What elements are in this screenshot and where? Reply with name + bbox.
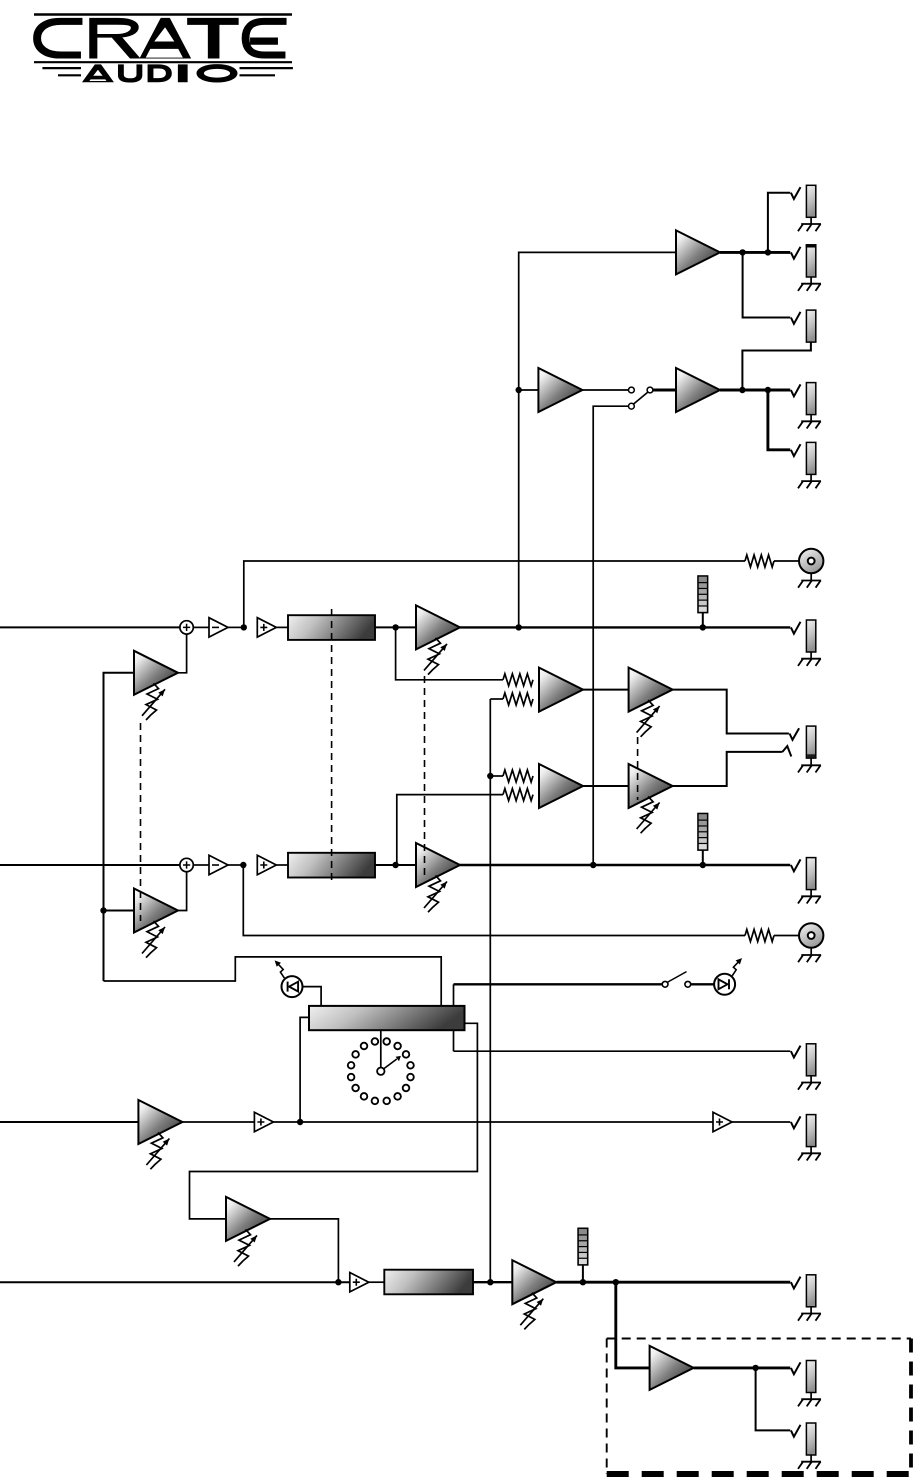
wire from node down-right to jack J3 — [743, 252, 791, 317]
node ch1 tape tap — [241, 624, 247, 630]
jack J2 (speaker out L) — [791, 247, 801, 259]
switch SW1 throw contact — [647, 387, 653, 393]
node PA meter tap — [580, 1279, 586, 1285]
variable resistor of A6 — [238, 1229, 251, 1266]
wire footswitch line — [454, 983, 663, 985]
wire buffer to node 2 — [228, 864, 243, 866]
logo left flourish lines — [42, 67, 81, 69]
wire master left terminal down — [300, 1017, 309, 1122]
ground — [801, 1461, 821, 1463]
node ch2 post fader — [392, 862, 398, 868]
summing node S1 — [180, 621, 193, 634]
wire mic line to right — [273, 1121, 713, 1123]
wire HA2 to phone tip — [673, 690, 789, 734]
node ch2 tape tap — [240, 862, 246, 868]
fader F1 (channel 1 level) — [288, 615, 375, 640]
ground — [801, 1082, 821, 1084]
EQ block — [384, 1270, 473, 1295]
ground — [801, 480, 821, 482]
rotary selector switch — [383, 1038, 390, 1045]
logo AUDIO wordmark — [83, 65, 237, 82]
wire ch2 output line — [460, 864, 790, 866]
LED meter channel 2 — [702, 850, 704, 865]
wire A2 output line — [720, 389, 790, 392]
node A2 out 1 — [739, 387, 745, 393]
wire FB2 input from bus — [104, 910, 135, 912]
dashed enclosure right edge — [909, 1339, 913, 1475]
buffer B3 (-) — [209, 855, 228, 874]
jack footswitch — [791, 1046, 801, 1058]
op-amp A7 (power amp) — [512, 1260, 556, 1304]
variable resistor of A5 — [150, 1133, 163, 1170]
ground — [801, 1398, 821, 1400]
dashed enclosure left edge — [606, 1339, 608, 1475]
footswitch arm — [667, 972, 686, 983]
wire bus top bend to resistor — [490, 698, 503, 700]
logo CRATE wordmark — [34, 18, 287, 58]
node bus join PA — [487, 1279, 493, 1285]
ground — [801, 283, 821, 285]
wire buffer to fader — [276, 626, 288, 628]
resistor R4 headphone R b — [503, 789, 533, 801]
jack channel 1 output — [791, 622, 801, 634]
wire to footswitch jack — [454, 1050, 791, 1052]
node ch1 meter tap — [700, 624, 706, 630]
LED meter PA — [582, 1265, 584, 1282]
wire down to jack J5 — [768, 390, 790, 450]
wire ch2 headphone feed — [397, 795, 503, 865]
node bus to headphone upper — [487, 773, 493, 779]
jack ext speaker 2 — [791, 1425, 801, 1437]
wire EQ to PA amp — [473, 1281, 512, 1283]
dashed gang link feedback amps — [140, 723, 142, 921]
node on bus to amp A3 — [516, 387, 522, 393]
wire buffer to EQ — [369, 1281, 385, 1283]
wire PA bus vertical — [489, 699, 491, 1282]
ground — [801, 580, 821, 582]
jack speaker main — [791, 1277, 801, 1289]
node feedback bus — [100, 907, 106, 913]
node ext out — [752, 1365, 758, 1371]
resistor ch1 tape — [745, 555, 774, 567]
wire A9 output — [694, 1366, 791, 1369]
wire HA4 to phone ring — [673, 752, 783, 786]
logo right flourish lines — [240, 67, 293, 69]
wire to extension amp — [616, 1282, 650, 1368]
resistor ch2 tape — [745, 930, 774, 942]
wire PA output line — [557, 1281, 791, 1284]
wire buffer to node — [228, 626, 244, 628]
LED D1 (power indicator) — [282, 976, 303, 997]
resistor R3 headphone R a — [503, 770, 533, 782]
wire HA1 out to HA2 — [583, 689, 629, 691]
wire A1 output line — [720, 251, 790, 254]
op-amp A2 (power amp R) — [676, 368, 720, 412]
ground — [801, 954, 821, 956]
node ch1 post fader — [392, 624, 398, 630]
op-amp A6 (reverb driver) — [226, 1197, 270, 1241]
node PA ext tap — [613, 1279, 619, 1285]
wire bus to resistor R3 — [490, 775, 503, 777]
node A1 out 2 — [765, 249, 771, 255]
summing node S2 — [180, 858, 193, 871]
wire from lower contact to channel 2 line — [593, 406, 628, 865]
buffer B4 (+) — [257, 855, 276, 874]
wire up to jack J1 — [768, 193, 790, 253]
node ch2 switch tap — [590, 862, 596, 868]
variable resistor of HA4 — [641, 797, 654, 834]
dashed enclosure top edge — [607, 1338, 911, 1340]
LED D2 (reverb indicator) — [714, 974, 735, 995]
wire FB1 input from bus — [104, 673, 135, 981]
wire ch1 tape send — [244, 561, 745, 627]
op-amp FB1 (ch1 feedback) — [134, 651, 178, 695]
switch SW1 lower contact — [629, 403, 635, 409]
variable resistor of FB2 — [146, 921, 159, 958]
resistor R2 headphone L b — [503, 693, 533, 705]
wire channel 1 input — [0, 626, 180, 628]
node A1 out 1 — [739, 249, 745, 255]
variable resistor of HA2 — [641, 700, 654, 737]
jack J3 (power amp in) — [791, 312, 801, 324]
op-amp A8 (channel 2 VCA) — [416, 843, 460, 887]
RCA jack tape out L — [799, 549, 823, 573]
wire buffer to fader 2 — [276, 864, 288, 866]
footswitch contact B — [685, 981, 691, 987]
op-amp A4 (channel 1 VCA) — [416, 605, 460, 649]
ground — [801, 420, 821, 422]
wire fader to amp A8 — [375, 864, 416, 866]
logo middle rule — [34, 61, 292, 63]
RCA jack tape out R — [799, 923, 823, 947]
buffer B2 (+) — [257, 618, 276, 637]
op-amp A3 (power amp R driver) — [538, 368, 582, 412]
op-amp HA2 (headphone level L) — [629, 668, 673, 712]
ground — [801, 658, 821, 660]
op-amp A9 (extension driver) — [650, 1346, 694, 1390]
node ch1 bus tap — [516, 624, 522, 630]
wire down to ext jack 2 — [756, 1368, 791, 1431]
headphone jack tip contact — [790, 728, 800, 740]
ground — [801, 223, 821, 225]
wire ch1 headphone feed — [396, 627, 503, 679]
op-amp HA1 (headphone mix L) — [539, 668, 583, 712]
wire feedback bus to master wiper — [104, 957, 442, 1006]
dashed enclosure bottom edge — [607, 1471, 911, 1477]
resistor R1 headphone L a — [503, 674, 533, 686]
jack J4 (speaker out R) — [791, 384, 801, 396]
wire S2 to feedback amp FB2 — [178, 872, 187, 911]
slider master volume — [309, 1006, 465, 1030]
LED meter channel 1 — [702, 613, 704, 628]
dashed gang link faders — [331, 609, 333, 884]
headphone jack body — [806, 726, 815, 758]
wire jack J3 switch return to A2 output — [742, 342, 811, 390]
wire bus to amp A3 input — [519, 389, 539, 391]
wire footswitch net vertical — [453, 984, 455, 1051]
jack line out — [791, 1116, 801, 1128]
ground — [801, 764, 821, 766]
op-amp FB2 (ch2 feedback) — [134, 889, 178, 933]
wire master right terminal to reverb — [190, 1023, 478, 1219]
ground — [801, 895, 821, 897]
wire mic input — [0, 1121, 138, 1123]
wire footswitch to LED D2 — [691, 983, 714, 985]
dashed gang link channel VCAs — [424, 676, 426, 877]
wire ch2 tape send — [243, 865, 745, 936]
wire from preamp bus up to power amp A1 input — [519, 252, 676, 627]
wire to inverting buffer — [193, 626, 209, 628]
switch SW1 pole contact — [629, 387, 635, 393]
ground — [801, 1152, 821, 1154]
op-amp HA4 (headphone level R) — [629, 764, 673, 808]
wire PA input — [0, 1281, 350, 1283]
wire ch1 output line — [460, 626, 790, 628]
wire resistor to RCA — [774, 560, 799, 562]
variable resistor of FB1 — [146, 683, 159, 720]
jack J5 (ext speaker R) — [791, 444, 801, 456]
logo top rule — [34, 13, 292, 16]
wire S1 to feedback amp FB1 — [178, 634, 187, 673]
wire channel 2 input — [0, 864, 180, 866]
footswitch contact A — [662, 981, 668, 987]
wire buffer to line jack — [732, 1121, 790, 1123]
wire reverb out to PA line — [270, 1219, 339, 1282]
node ch2 meter tap — [700, 862, 706, 868]
op-amp A5 (mic preamp) — [138, 1100, 182, 1144]
buffer B5 (+) — [254, 1112, 273, 1131]
headphone jack ring contact — [782, 746, 791, 756]
node A2 out 2 — [765, 387, 771, 393]
op-amp HA3 (headphone mix R) — [539, 764, 583, 808]
wire switch to amp A2 input — [653, 389, 676, 392]
jack channel 2 output — [791, 859, 801, 871]
variable resistor of A4 — [428, 638, 441, 675]
wire A3 output to switch — [582, 389, 628, 391]
buffer B1 (-) — [209, 618, 228, 637]
node mic to master — [297, 1119, 303, 1125]
wire LED D1 to master slider — [302, 987, 321, 1006]
wire resistor to RCA 2 — [774, 935, 799, 937]
jack ext speaker 1 — [791, 1362, 801, 1374]
variable resistor of A7 — [524, 1293, 537, 1330]
wire fader to amp A4 — [375, 626, 416, 628]
dashed gang link headphone levels — [637, 737, 639, 800]
node reverb join — [335, 1279, 341, 1285]
wire to inverting buffer 2 — [193, 864, 209, 866]
jack J1 (line out L) — [791, 187, 801, 199]
switch SW1 arm — [633, 392, 648, 405]
fader F2 (channel 2 level) — [288, 853, 375, 878]
variable resistor of A8 — [428, 876, 441, 913]
wire mic amp to buffer — [182, 1121, 254, 1123]
buffer B6 (+) — [713, 1112, 732, 1131]
op-amp A1 (power amp L) — [676, 230, 720, 274]
wire HA3 out to HA4 — [583, 785, 629, 787]
buffer B7 (+) — [350, 1273, 369, 1292]
wire rotary stem — [380, 1030, 382, 1067]
ground — [801, 1313, 821, 1315]
